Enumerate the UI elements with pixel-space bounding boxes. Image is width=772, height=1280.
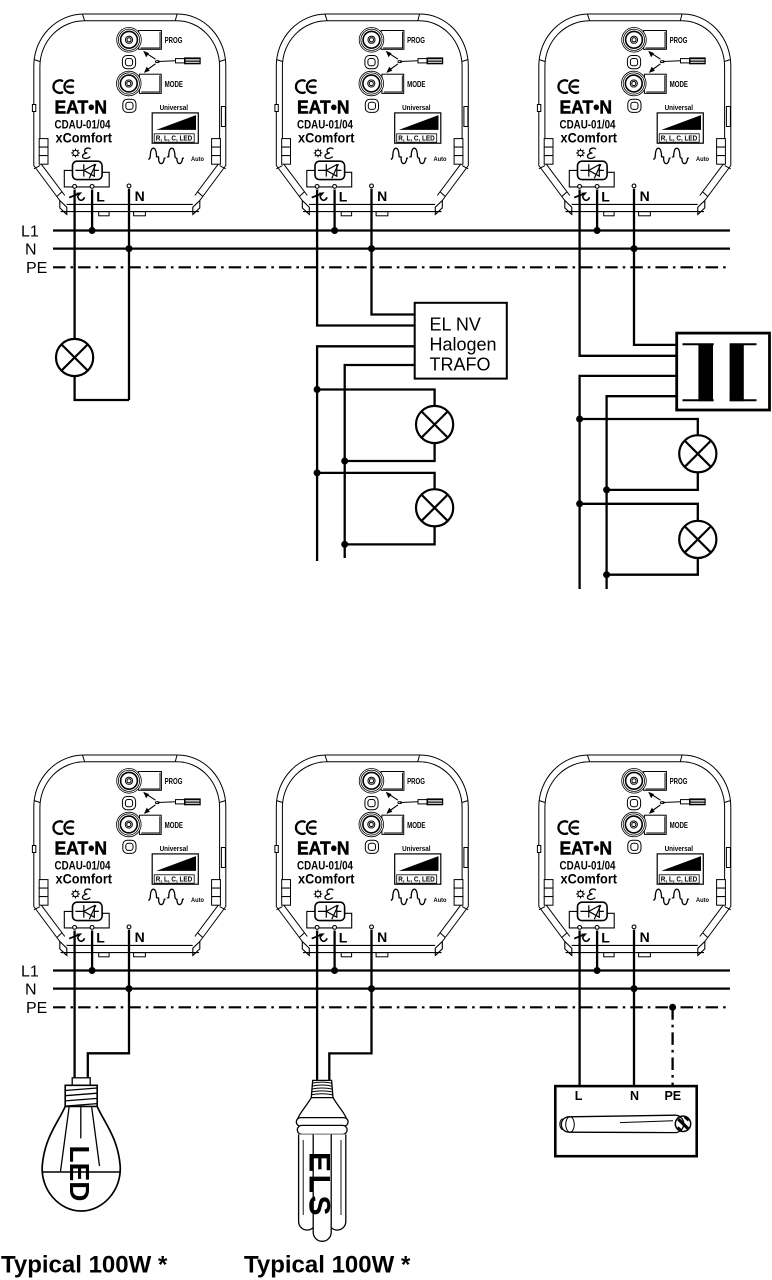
PE bus line top — [53, 266, 730, 268]
lamp E4 — [679, 435, 716, 472]
wire U1 N terminal down — [128, 189, 130, 400]
dimming actuator U1 — [32, 14, 225, 216]
junction E4 branch on T1 bus A — [576, 416, 583, 423]
wire U1 L terminal to L1 bus — [91, 190, 93, 231]
wire U2 L terminal to L1 bus — [333, 190, 335, 231]
lamp E3 — [416, 489, 453, 526]
junction E2 branch on bus A — [314, 386, 321, 393]
ELS lamp E7 — [296, 1080, 348, 1241]
junction U4 L on L1 — [89, 967, 96, 974]
fluorescent fixture — [555, 1086, 696, 1156]
wire U6 output to fixture L — [578, 931, 580, 1087]
wire PE to fixture PE — [671, 1007, 673, 1086]
wire lamp E2 return — [345, 443, 435, 461]
junction U3 N on N bus — [631, 245, 638, 252]
fluorescent tube — [560, 1115, 691, 1132]
junction U1 L on L1 — [89, 227, 96, 234]
junction U5 N on N bus — [368, 985, 375, 992]
svg-text:LED: LED — [64, 1146, 95, 1202]
N bus line bottom — [53, 987, 730, 989]
wire U1 output down to lamp E1 — [73, 190, 75, 340]
PE bus line bottom — [53, 1006, 730, 1008]
svg-text:Typical 100W *: Typical 100W * — [1, 1252, 168, 1279]
svg-text:EL NV: EL NV — [430, 314, 481, 334]
wire lamp E4 return — [607, 472, 698, 490]
svg-text:ELS: ELS — [303, 1152, 336, 1218]
svg-text:TRAFO: TRAFO — [430, 354, 491, 374]
wire U3 output to transformer T1 primary — [580, 190, 677, 356]
junction PE tap — [669, 1004, 676, 1011]
transformer T1 — [677, 333, 770, 410]
svg-text:PE: PE — [26, 260, 47, 277]
wire trafo secondary bus A — [317, 346, 415, 561]
wire U5 N terminal to ELS lamp — [329, 930, 371, 1081]
junction U1 N on N bus — [126, 245, 133, 252]
wire lamp E3 return — [345, 526, 435, 544]
wire U2 N terminal to trafo primary — [372, 189, 415, 315]
wire T1 secondary bus B — [607, 396, 677, 589]
wire branch to lamp E3 — [317, 473, 435, 489]
svg-text:N: N — [25, 241, 37, 258]
LED lamp E6 — [42, 1078, 120, 1211]
junction U3 L on L1 — [594, 227, 601, 234]
junction U6 N on N bus — [631, 985, 638, 992]
svg-text:Halogen: Halogen — [430, 334, 497, 354]
dimming actuator U2 — [275, 14, 468, 216]
wire T1 secondary bus A — [580, 376, 677, 589]
svg-text:N: N — [25, 981, 37, 998]
junction E5 branch on T1 bus A — [576, 500, 583, 507]
junction U2 L on L1 — [331, 227, 338, 234]
wire U6 N terminal to fixture N — [633, 930, 635, 1086]
junction U4 N on N bus — [126, 985, 133, 992]
wire U3 N terminal to transformer T1 primary — [634, 189, 677, 345]
N bus line top — [53, 248, 730, 250]
wire U6 L terminal to L1 bus — [596, 931, 598, 971]
L1 bus line bottom — [53, 969, 730, 971]
junction E5 return on T1 bus B — [603, 571, 610, 578]
junction E3 branch on bus A — [314, 469, 321, 476]
dimming actuator U6 — [537, 755, 730, 957]
svg-text:PE: PE — [26, 1000, 47, 1017]
wire branch to lamp E4 — [580, 419, 698, 435]
junction E3 return on bus B — [341, 541, 348, 548]
junction U6 L on L1 — [594, 967, 601, 974]
svg-text:PE: PE — [664, 1089, 681, 1103]
wire U3 L terminal to L1 bus — [596, 190, 598, 231]
svg-text:Typical 100W *: Typical 100W * — [244, 1252, 411, 1279]
svg-text:L1: L1 — [21, 223, 39, 240]
dimming actuator U5 — [275, 755, 468, 957]
dimming actuator U4 — [32, 755, 225, 957]
dimming actuator U3 — [537, 14, 730, 216]
junction E4 return on T1 bus B — [603, 486, 610, 493]
wire branch to lamp E2 — [317, 390, 435, 407]
electronic halogen transformer box — [415, 303, 507, 379]
svg-text:N: N — [630, 1089, 639, 1103]
junction U5 L on L1 — [331, 967, 338, 974]
wire U5 L terminal to L1 bus — [333, 931, 335, 971]
junction U2 N on N bus — [368, 245, 375, 252]
svg-text:L1: L1 — [21, 963, 39, 980]
wire U2 output to trafo primary — [317, 190, 415, 326]
wire trafo secondary bus B — [345, 365, 415, 558]
wire lamp E5 return — [607, 558, 698, 575]
wire U5 output to ELS lamp — [316, 931, 318, 1081]
L1 bus line top — [53, 229, 730, 231]
junction E2 return on bus B — [341, 458, 348, 465]
wire lamp E1 return elbow — [75, 376, 129, 400]
lamp E5 — [679, 521, 716, 558]
wire U4 N terminal to LED lamp — [88, 930, 129, 1080]
lamp E2 — [416, 406, 453, 443]
wire branch to lamp E5 — [580, 504, 698, 521]
wire U4 L terminal to L1 bus — [91, 931, 93, 971]
lamp E1 — [56, 339, 93, 376]
svg-text:L: L — [575, 1089, 583, 1103]
wire U4 output to LED lamp — [73, 931, 75, 1081]
